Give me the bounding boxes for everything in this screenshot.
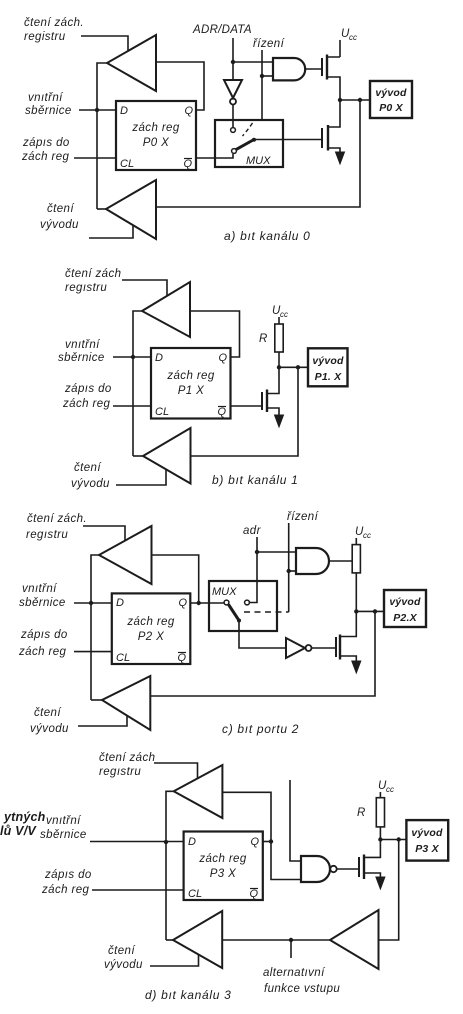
svg-text:P0 X: P0 X bbox=[143, 137, 170, 149]
label cteni vyvodu (B) bbox=[71, 462, 110, 490]
wire output node B to vyvod box bbox=[279, 366, 308, 368]
svg-text:P3 X: P3 X bbox=[415, 843, 439, 855]
box vyvod P1.X bbox=[308, 348, 348, 386]
label cteni zach registru (C) bbox=[26, 513, 87, 541]
wire write clock to CL input A bbox=[74, 157, 116, 159]
wire cteni zach registru to top buffer D bbox=[154, 763, 198, 779]
wire Ucc to resistor B bbox=[278, 317, 280, 324]
label cteni zach registru (B) bbox=[65, 268, 121, 294]
NAND gate D bbox=[301, 856, 330, 882]
label zapis do zach reg (B) bbox=[62, 383, 112, 410]
svg-text:vývodu: vývodu bbox=[71, 478, 110, 490]
AND gate C bbox=[296, 548, 329, 574]
resistor R (C) bbox=[352, 545, 360, 573]
caption fragment left margin bbox=[0, 810, 46, 838]
transistor Q2 lower FET A bbox=[321, 128, 323, 148]
wire inverter C output to FET gate bbox=[312, 647, 337, 649]
ground D bbox=[376, 877, 385, 889]
label vnitrni sbernice (B) bbox=[58, 339, 105, 364]
svg-text:lů V/V: lů V/V bbox=[0, 824, 37, 838]
wire rizeni branch to AND gate A input 2 bbox=[262, 75, 273, 77]
wire write clock to CL input B bbox=[113, 405, 151, 407]
pin Qbar overline D bbox=[250, 888, 258, 890]
svg-text:řízení: řízení bbox=[287, 511, 320, 523]
ground A bbox=[336, 152, 345, 164]
label cteni zach registru (A) bbox=[24, 17, 84, 43]
wire buffer D2 output to bus vertical bbox=[166, 939, 173, 941]
node output C left bbox=[354, 609, 358, 613]
wire Q output to read buffer B bbox=[190, 311, 240, 357]
svg-text:CL: CL bbox=[116, 652, 130, 664]
svg-text:čtení: čtení bbox=[34, 707, 62, 719]
svg-text:vnıtřní: vnıtřní bbox=[65, 339, 101, 351]
wire output node D to vyvod box bbox=[380, 839, 406, 841]
label cteni vyvodu (C) bbox=[30, 707, 69, 735]
wire rizeni down to MUX select A bbox=[261, 50, 263, 120]
svg-text:R: R bbox=[259, 333, 268, 345]
svg-text:D: D bbox=[120, 105, 128, 117]
label zapis do zach reg (C) bbox=[18, 629, 68, 658]
wire alternate output function stub to NAND input 1 bbox=[290, 780, 301, 861]
node output D right bbox=[397, 837, 401, 841]
svg-text:P2.X: P2.X bbox=[393, 612, 417, 624]
svg-text:d) bıt kanálu 3: d) bıt kanálu 3 bbox=[145, 988, 232, 1002]
svg-text:sběrnice: sběrnice bbox=[40, 829, 87, 841]
label Ucc (A) bbox=[341, 28, 357, 42]
svg-text:zách reg: zách reg bbox=[62, 398, 111, 410]
svg-text:regıstru: regıstru bbox=[65, 282, 107, 294]
node adr branch C bbox=[255, 550, 259, 554]
svg-text:ADR/DATA: ADR/DATA bbox=[192, 24, 252, 36]
svg-text:CL: CL bbox=[155, 406, 169, 418]
node Q branch C bbox=[197, 601, 201, 605]
wire AND C output to resistor bbox=[329, 560, 352, 562]
svg-text:regıstru: regıstru bbox=[99, 766, 141, 778]
wire MUX A common to lower FET gate bbox=[254, 139, 322, 141]
transistor Q5 FET D bbox=[358, 857, 360, 877]
svg-text:cc: cc bbox=[280, 310, 288, 319]
wire inverter A output into MUX bbox=[232, 105, 234, 127]
svg-text:čtení zách: čtení zách bbox=[99, 752, 155, 764]
label zapis do zach reg (A) bbox=[21, 137, 70, 163]
buffer A2 (read pin, points left) bbox=[106, 180, 156, 239]
wire feedback output D down to input buffer bbox=[379, 840, 399, 941]
buffer D1 (read latch, points left) bbox=[174, 765, 223, 818]
svg-text:P1. X: P1. X bbox=[315, 371, 342, 383]
svg-text:zách reg: zách reg bbox=[21, 151, 70, 163]
label vnitrni sbernice (A) bbox=[25, 92, 72, 117]
svg-text:Q: Q bbox=[183, 158, 192, 170]
label vnitrni sbernice (C) bbox=[19, 583, 66, 609]
caption d) bit kanalu 3 bbox=[145, 988, 232, 1002]
svg-text:sběrnice: sběrnice bbox=[19, 597, 66, 609]
svg-text:zách reg: zách reg bbox=[166, 370, 215, 382]
contact MUX A input from inverter bbox=[231, 128, 236, 133]
svg-text:čtení zách: čtení zách bbox=[65, 268, 121, 280]
buffer B1 (read latch, points left) bbox=[142, 282, 190, 337]
label Ucc (B) bbox=[272, 305, 288, 319]
ground B bbox=[275, 415, 284, 427]
svg-text:ytných: ytných bbox=[3, 810, 46, 824]
wire Ucc to resistor D bbox=[379, 792, 381, 798]
node output B right bbox=[296, 365, 300, 369]
svg-text:čtení zách.: čtení zách. bbox=[24, 17, 84, 29]
svg-text:b) bıt kanálu 1: b) bıt kanálu 1 bbox=[212, 473, 299, 487]
caption c) bit portu 2 bbox=[222, 722, 299, 736]
pin Qbar overline B bbox=[218, 406, 226, 408]
svg-text:cc: cc bbox=[386, 785, 394, 794]
node output C right bbox=[373, 609, 377, 613]
wire buffer D1 output to internal bus bbox=[166, 791, 174, 940]
wire Q down to NAND input 2 bbox=[271, 842, 301, 880]
svg-text:čtení zách.: čtení zách. bbox=[27, 513, 87, 525]
svg-text:P0 X: P0 X bbox=[379, 102, 403, 114]
buffer B2 (read pin, points left) bbox=[143, 428, 191, 484]
wire MUX C common to inverter bbox=[239, 621, 286, 649]
transistor Q3 FET B bbox=[261, 392, 263, 410]
wire cteni zach registru to top buffer B bbox=[122, 280, 167, 296]
wire ADR branch to AND gate A input 1 bbox=[233, 61, 273, 63]
svg-text:Q: Q bbox=[177, 652, 186, 664]
svg-text:zách reg: zách reg bbox=[131, 122, 180, 134]
wire cteni vyvodu enable C bbox=[78, 715, 127, 726]
label ADR/DATA bbox=[192, 24, 252, 36]
dashed select linkage C bbox=[244, 611, 289, 613]
node rizeni branch C bbox=[287, 569, 291, 573]
latch U1 zach reg P0.X bbox=[116, 101, 196, 170]
wire Q output to read buffer A bbox=[156, 62, 204, 110]
box vyvod P0.X bbox=[370, 81, 412, 118]
node Q junction D bbox=[269, 839, 273, 843]
svg-text:P2 X: P2 X bbox=[138, 631, 165, 643]
svg-text:čtení: čtení bbox=[47, 203, 75, 215]
wire adr down into MUX C bbox=[250, 537, 258, 603]
wire buffer A1 output to internal bus bbox=[97, 63, 107, 209]
svg-text:Q: Q bbox=[184, 105, 193, 117]
transistor Q4 FET C bbox=[335, 637, 337, 657]
label Ucc (C) bbox=[355, 526, 371, 540]
node rizeni branch A bbox=[260, 74, 264, 78]
svg-text:R: R bbox=[357, 807, 366, 819]
svg-text:čtení: čtení bbox=[74, 462, 102, 474]
svg-text:vývodu: vývodu bbox=[104, 959, 143, 971]
wire feedback output C to read-pin buffer bbox=[150, 611, 375, 696]
buffer C2 (read pin, points left) bbox=[102, 676, 150, 730]
svg-text:c) bıt portu 2: c) bıt portu 2 bbox=[222, 722, 299, 736]
svg-text:MUX: MUX bbox=[212, 586, 237, 598]
wire buffer C2 output to bus vertical bbox=[91, 699, 102, 701]
wire output node C to vyvod box bbox=[356, 610, 384, 612]
wire cteni vyvodu enable A bbox=[89, 225, 133, 238]
svg-text:sběrnice: sběrnice bbox=[58, 352, 105, 364]
wire buffer B2 output to bus vertical bbox=[133, 455, 143, 457]
node bus junction D bbox=[164, 840, 168, 844]
label vnitrni sbernice (D) bbox=[40, 815, 87, 841]
resistor R (D) bbox=[376, 798, 384, 827]
node output A left bbox=[338, 98, 342, 102]
label Ucc (D) bbox=[378, 780, 394, 794]
wire cteni zach registru to top buffer A bbox=[81, 36, 128, 51]
svg-text:vnıtřní: vnıtřní bbox=[46, 815, 82, 827]
wire Q output to MUX C bbox=[190, 602, 224, 604]
switch lever A bbox=[236, 140, 254, 150]
box vyvod P3.X bbox=[406, 820, 448, 861]
svg-text:zách reg: zách reg bbox=[198, 853, 247, 865]
AND gate A bbox=[273, 58, 305, 80]
svg-text:a) bıt kanálu 0: a) bıt kanálu 0 bbox=[224, 229, 311, 243]
caption b) bit kanalu 1 bbox=[212, 473, 299, 487]
svg-text:alternatıvní: alternatıvní bbox=[263, 967, 326, 979]
node bus junction B bbox=[131, 355, 135, 359]
MUX box C bbox=[209, 581, 277, 631]
svg-text:Q: Q bbox=[178, 597, 187, 609]
wire NAND output to FET gate D bbox=[337, 868, 359, 870]
resistor R (B) bbox=[275, 324, 283, 352]
svg-text:vývod: vývod bbox=[375, 87, 407, 99]
pin Qbar overline A bbox=[184, 158, 192, 160]
wire write clock to CL input C bbox=[74, 651, 112, 653]
wire ADR/DATA down to inverter A bbox=[232, 38, 234, 80]
svg-text:Q: Q bbox=[249, 888, 258, 900]
wire Ucc to upper FET drain A bbox=[339, 40, 341, 57]
wire resistor D to output node bbox=[379, 827, 381, 840]
wire internal bus to D input B bbox=[113, 356, 151, 358]
contact MUX C input from Q bbox=[224, 600, 229, 605]
wire rizeni branch to AND gate C input 2 bbox=[289, 570, 296, 572]
svg-text:zápıs do: zápıs do bbox=[22, 137, 70, 149]
label cteni vyvodu (A) bbox=[40, 203, 79, 231]
node bus junction C bbox=[89, 601, 93, 605]
svg-text:sběrnice: sběrnice bbox=[25, 105, 72, 117]
svg-text:čtení: čtení bbox=[108, 945, 136, 957]
svg-text:P3 X: P3 X bbox=[210, 868, 237, 880]
label rizeni (C) bbox=[287, 511, 320, 523]
label zapis do zach reg (D) bbox=[41, 869, 92, 896]
svg-text:zách reg: zách reg bbox=[41, 884, 90, 896]
svg-text:vývodu: vývodu bbox=[40, 219, 79, 231]
svg-text:Q: Q bbox=[217, 406, 226, 418]
wire stub alternativni funkce vstupu bbox=[290, 940, 292, 958]
node bus junction A bbox=[95, 108, 99, 112]
wire rizeni down to MUX dashed select C bbox=[288, 523, 290, 612]
wire Qbar output to FET gate B bbox=[231, 405, 263, 407]
svg-text:D: D bbox=[116, 597, 124, 609]
wire buffer B1 output to internal bus bbox=[133, 311, 142, 456]
svg-text:D: D bbox=[188, 836, 196, 848]
wire Q branch up to read buffer C bbox=[152, 555, 199, 603]
node output A right bbox=[358, 98, 362, 102]
svg-text:vývod: vývod bbox=[411, 827, 443, 839]
label rizeni (A) bbox=[253, 38, 286, 50]
dashed select linkage A bbox=[243, 123, 253, 136]
buffer D2 (read pin, points left) bbox=[173, 911, 222, 968]
svg-text:funkce vstupu: funkce vstupu bbox=[264, 983, 340, 995]
wire buffer A2 output to bus vertical bbox=[97, 208, 106, 210]
wire Q output D bbox=[263, 841, 271, 843]
pin Qbar overline C bbox=[178, 652, 186, 654]
svg-text:vývod: vývod bbox=[312, 355, 344, 367]
node output B left bbox=[277, 365, 281, 369]
transistor Q1 upper FET A bbox=[321, 58, 323, 76]
ground C bbox=[352, 661, 361, 673]
svg-text:vnıtřní: vnıtřní bbox=[22, 583, 58, 595]
wire output node A to vyvod box bbox=[340, 99, 370, 101]
node ADR branch A bbox=[231, 60, 235, 64]
svg-text:cc: cc bbox=[363, 531, 371, 540]
buffer A1 (read latch, points left) bbox=[107, 35, 156, 91]
latch U4 zach reg P3.X bbox=[184, 832, 263, 901]
svg-text:registru: registru bbox=[24, 31, 66, 43]
wire internal bus to D input (D) bbox=[90, 841, 184, 843]
wire cteni zach registru to top buffer C bbox=[83, 526, 125, 541]
wire Q up to read buffer D bbox=[222, 792, 271, 841]
svg-text:Q: Q bbox=[250, 836, 259, 848]
svg-text:vývod: vývod bbox=[389, 596, 421, 608]
node alternativni funkce vstupu bbox=[289, 938, 293, 942]
wire AND A output to upper FET gate bbox=[306, 68, 323, 70]
label cteni zach registru (D) bbox=[99, 752, 155, 778]
svg-text:cc: cc bbox=[349, 33, 357, 42]
svg-text:P1 X: P1 X bbox=[178, 385, 205, 397]
box vyvod P2.X bbox=[384, 590, 426, 627]
label alternativni funkce vstupu bbox=[263, 967, 340, 995]
svg-text:řízení: řízení bbox=[253, 38, 286, 50]
svg-text:vývodu: vývodu bbox=[30, 723, 69, 735]
wire feedback output A to read-pin buffer bbox=[156, 100, 360, 207]
svg-text:Q: Q bbox=[218, 352, 227, 364]
wire buffer C1 output to internal bus bbox=[91, 555, 99, 700]
caption a) bit kanalu 0 bbox=[224, 229, 311, 243]
svg-text:regıstru: regıstru bbox=[26, 529, 68, 541]
svg-text:zách reg: zách reg bbox=[126, 616, 175, 628]
wire Ucc to resistor C bbox=[355, 538, 357, 545]
wire buffer D3 output to read-pin buffer D bbox=[222, 939, 330, 941]
inverter C (points right) bbox=[286, 638, 305, 658]
wire resistor C to output node bbox=[355, 573, 357, 612]
buffer D3 alternate input (points left) bbox=[330, 910, 379, 969]
svg-text:zápıs do: zápıs do bbox=[44, 869, 92, 881]
wire feedback output B to read-pin buffer bbox=[191, 367, 299, 456]
contact MUX A input from Qbar bbox=[232, 149, 237, 154]
wire adr branch to AND gate C input 1 bbox=[257, 551, 296, 553]
MUX box A bbox=[215, 120, 283, 167]
svg-text:zápıs do: zápıs do bbox=[64, 383, 112, 395]
svg-text:zápıs do: zápıs do bbox=[20, 629, 68, 641]
svg-text:zách reg: zách reg bbox=[18, 646, 67, 658]
wire cteni vyvodu enable B bbox=[116, 469, 166, 485]
wire write clock to CL input D bbox=[92, 889, 184, 891]
label adr bbox=[243, 525, 262, 537]
wire internal bus to D input C bbox=[74, 602, 112, 604]
wire internal bus to D input A bbox=[79, 109, 116, 111]
svg-text:adr: adr bbox=[243, 525, 262, 537]
svg-text:MUX: MUX bbox=[246, 155, 271, 167]
wire resistor B to output node bbox=[278, 352, 280, 367]
svg-text:CL: CL bbox=[188, 888, 202, 900]
latch U3 zach reg P2.X bbox=[112, 593, 191, 664]
svg-text:CL: CL bbox=[120, 158, 134, 170]
node output D left bbox=[378, 837, 382, 841]
wire Qbar output to MUX A bbox=[196, 154, 233, 158]
label cteni vyvodu (D) bbox=[104, 945, 143, 971]
buffer C1 (read latch, points left) bbox=[99, 526, 152, 584]
switch lever C bbox=[229, 605, 240, 621]
svg-text:D: D bbox=[155, 352, 163, 364]
wire cteni vyvodu enable D bbox=[150, 954, 199, 966]
svg-text:vnıtřní: vnıtřní bbox=[28, 92, 64, 104]
inverter A (points down) bbox=[224, 80, 242, 98]
latch U2 zach reg P1.X bbox=[151, 348, 231, 419]
contact MUX C input from adr bbox=[245, 600, 250, 605]
